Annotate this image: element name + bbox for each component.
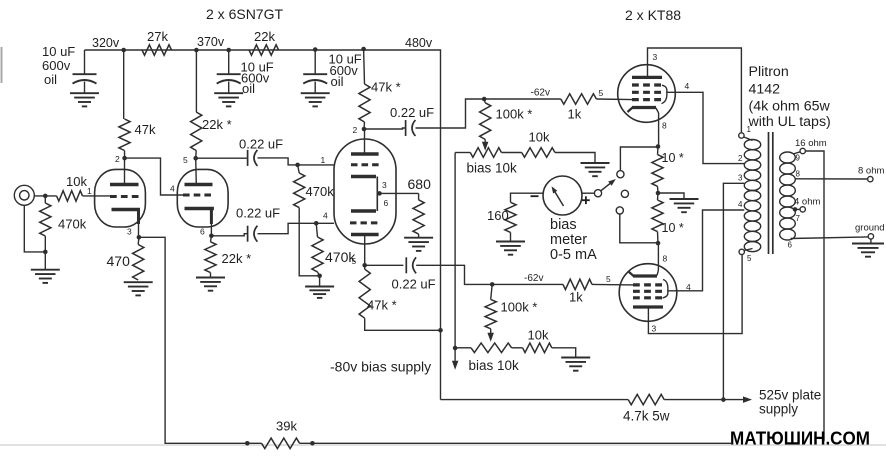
meter minus [531,195,539,197]
scan artifact left edge [1,47,3,83]
resistor 47k* lower [364,265,366,269]
resistor 10k input [57,191,83,201]
wire direct coupling V1a plate to V1b grid [125,158,183,195]
KT88 upper envelope [618,65,676,123]
wire pin2 to cap upper KT88 [364,128,406,129]
svg-text:meter: meter [550,232,587,248]
resistor 47k* plate load top [363,49,366,84]
ground symbol output [870,239,872,243]
svg-text:1: 1 [321,155,326,165]
resistor 10k lower [512,347,523,349]
svg-text:47k *: 47k * [367,298,397,313]
svg-text:10 *: 10 * [662,221,684,235]
svg-text:8: 8 [796,170,801,179]
KT88 lower grids [633,283,662,286]
capacitor 10uF 600v oil #3 [314,50,316,74]
wire feedback to 16 ohm tap [300,442,731,444]
svg-text:10k: 10k [529,130,550,145]
resistor 470k grid4 [316,223,317,237]
transformer core [768,132,770,254]
wire 1k to KT88 grid [596,98,632,101]
potentiometer bias 10k upper [455,152,470,154]
svg-text:27k: 27k [147,29,168,44]
node 39k right [310,441,315,446]
wire cap to driver grid 4 [258,223,335,233]
KT88 lower anode lead pin 3 [648,255,742,334]
svg-text:8 ohm: 8 ohm [858,166,884,177]
svg-text:3: 3 [738,174,743,183]
V1a grid [110,195,139,198]
meter plus [582,199,590,201]
svg-text:160: 160 [487,208,509,223]
svg-text:470k: 470k [306,184,335,199]
resistor 10* upper [657,147,660,155]
resistor 47k plate load V1a [123,50,125,119]
switch contact bottom [616,207,623,214]
capacitor 0.22uF to upper KT88 [405,120,407,136]
ground 470k pair [305,286,334,288]
svg-text:МАТЮШИН.COM: МАТЮШИН.COM [730,428,870,449]
node input ground [43,250,48,255]
svg-text:bias: bias [550,217,577,233]
KT88 lower cathode [633,274,657,277]
capacitor 10uF 600v oil #2 [228,50,230,74]
terminal ground [868,234,873,239]
svg-text:39k: 39k [276,419,297,434]
svg-text:5: 5 [606,274,611,284]
node driver grid1 [295,163,300,168]
capacitor 10uF 600v oil #1 [84,50,86,74]
svg-text:oil: oil [331,74,344,89]
node cathode 3-6 [377,191,382,196]
svg-text:2 x KT88: 2 x KT88 [625,7,681,23]
svg-text:600v: 600v [42,58,71,73]
resistor 4.7k 5w [628,394,664,404]
V1a cathode [112,208,141,211]
svg-text:supply: supply [759,402,798,417]
wire 470k down [299,208,319,276]
svg-text:oil: oil [242,81,255,96]
V2 bottom anode [351,233,379,236]
svg-text:2: 2 [115,154,120,164]
svg-text:100k *: 100k * [501,300,538,315]
wire to 525v arrow [664,399,745,401]
svg-text:ground: ground [855,223,885,234]
resistor 100k* lower [491,284,493,299]
svg-text:22k: 22k [254,29,275,44]
V2 top grid [351,163,379,166]
node 10 midpoint [656,191,661,196]
V2 cathode pair [351,175,376,178]
ground 22k cathode [210,273,212,278]
wire meter plus lead [582,192,594,194]
transformer primary coil [744,140,760,150]
svg-text:bias 10k: bias 10k [467,161,518,176]
svg-text:480v: 480v [405,36,433,50]
wire 1k to lower KT88 grid [592,283,633,286]
input jack [14,185,34,205]
svg-text:3: 3 [127,227,132,237]
resistor 1k lower [563,279,592,289]
wire 47k lower to B+ vertical [365,318,441,330]
svg-text:-80v bias supply: -80v bias supply [330,359,431,375]
svg-text:525v plate: 525v plate [759,388,821,403]
svg-text:6: 6 [200,227,205,237]
svg-text:bias 10k: bias 10k [469,358,520,373]
svg-text:Plitron: Plitron [749,64,789,80]
V1a anode [110,183,139,186]
node 525v [721,397,726,402]
svg-text:-62v: -62v [524,273,543,284]
resistor 27k [142,45,172,55]
resistor 22k* cathode V1b [210,236,213,242]
svg-text:680: 680 [408,176,432,192]
resistor 39k [262,438,300,448]
ground 160 [510,232,512,241]
switch pole [594,190,601,197]
svg-text:22k *: 22k * [222,251,252,266]
svg-text:with UL taps): with UL taps) [748,114,831,130]
wire V1b cathode to cap [211,234,247,236]
svg-text:4 ohm: 4 ohm [794,197,820,208]
svg-text:470k: 470k [58,217,87,232]
svg-text:4: 4 [323,211,328,221]
svg-text:10k: 10k [66,174,87,189]
svg-text:10 uF: 10 uF [42,44,75,59]
svg-text:0.22 uF: 0.22 uF [236,206,280,221]
resistor 10* lower [657,193,660,200]
svg-text:16 ohm: 16 ohm [795,138,827,149]
svg-text:47k *: 47k * [371,80,401,95]
svg-text:320v: 320v [92,36,120,50]
transformer primary terminal 5 [739,249,744,254]
svg-text:-62v: -62v [531,88,550,99]
switch contact top [617,171,624,178]
wire V1b plate to cap [196,157,248,159]
wire cap to driver grid 1 [258,158,335,165]
svg-text:5: 5 [599,88,604,98]
node -62v upper [482,97,487,102]
svg-text:4: 4 [738,200,743,209]
svg-text:2: 2 [353,125,358,135]
svg-text:2 x 6SN7GT: 2 x 6SN7GT [206,6,283,22]
wire cap to -62v node upper [416,99,561,128]
KT88 upper anode [632,76,662,79]
wire bottom contact to lower cathode [620,214,658,243]
svg-text:9: 9 [796,154,801,163]
ground 470 [124,281,153,283]
svg-text:6: 6 [788,241,793,250]
wire pin5 V2 to cap lower KT88 [365,264,404,266]
KT88 lower grid bracket [663,280,668,299]
KT88 upper grid bracket [662,85,667,103]
svg-text:1k: 1k [569,290,583,305]
KT88 lower anode [633,305,663,308]
svg-text:5: 5 [352,256,357,266]
svg-text:0-5 mA: 0-5 mA [550,247,597,263]
node pin5 V1b [193,156,198,161]
capacitor 0.22uF upper [247,150,249,166]
V1b cathode [185,207,214,210]
wire 16 ohm feedback [805,151,824,441]
wire meter minus lead [511,193,544,202]
resistor 680 cathode [418,193,420,199]
node 480v [313,47,318,52]
svg-text:22k *: 22k * [202,117,232,132]
ground 680 [418,234,420,237]
resistor 10k upper [501,152,521,154]
svg-text:6: 6 [384,198,389,208]
resistor 470k input [44,196,46,203]
resistor 160 [505,202,516,232]
svg-text:10k: 10k [528,328,549,343]
V2 bottom grid [350,221,377,224]
wire jack sleeve [24,205,45,252]
svg-text:2: 2 [738,154,743,163]
pot wiper arrow upper [484,139,486,145]
svg-text:47k: 47k [135,122,156,137]
secondary tap 8 [795,178,867,180]
KT88 upper grids [632,83,661,86]
svg-text:4: 4 [686,282,691,292]
wire 525v rail [441,399,629,401]
node input [43,194,48,199]
secondary tap 6 ground [791,237,869,239]
arrow 525v supply [743,396,752,403]
resistor 470k grid1 [298,165,300,173]
svg-text:10 *: 10 * [662,151,684,165]
node on B+ vertical [438,328,443,333]
triode V1a envelope [95,169,146,227]
potentiometer bias 10k lower [455,347,471,349]
resistor 1k upper [561,94,597,104]
node lower cathode [656,241,661,246]
svg-text:(4k ohm 65w: (4k ohm 65w [749,99,831,115]
driver V2 envelope [334,139,396,244]
ground input [31,269,60,271]
triode V1b envelope [177,169,228,227]
svg-text:4.7k 5w: 4.7k 5w [623,409,670,424]
resistor 22k [249,45,279,55]
switch arm [601,181,613,191]
node 470k junction [317,274,322,279]
V2 top anode [351,152,379,155]
wire B+ rail [85,50,441,400]
svg-text:7: 7 [796,214,801,223]
ground 10k lower [552,348,576,358]
secondary tap 7 4ohm [793,207,798,212]
svg-text:1: 1 [87,186,92,196]
capacitor 0.22uF lower [247,226,249,242]
terminal 8 ohm [868,176,873,181]
svg-text:8: 8 [662,121,667,131]
transformer secondary coil [780,152,796,163]
meter body [543,176,582,215]
secondary terminal 9 [793,152,800,154]
wire feedback from V1a cathode [139,237,247,443]
svg-text:0.22 uF: 0.22 uF [390,105,434,120]
node pin3 V1a [137,235,142,240]
wire center tap to 525v [723,183,744,399]
KT88 upper screen lead pin 4 [667,92,745,163]
svg-text:1k: 1k [568,107,582,122]
scan artifact bottom line [0,444,886,446]
svg-text:0.22 uF: 0.22 uF [392,277,436,292]
switch contact middle [621,190,628,197]
node 39k left [245,441,250,446]
wire cap to -62v node lower [416,265,563,284]
ground 10 midpoint [658,193,684,199]
capacitor 0.22uF to lower KT88 [405,257,407,273]
KT88 lower envelope [619,264,677,322]
svg-text:3: 3 [382,180,387,190]
svg-text:3: 3 [652,324,657,334]
node driver grid4 [314,221,319,226]
node pin2 V1a [122,156,127,161]
node 320v [121,48,126,53]
V1b grid [183,194,211,197]
svg-text:470: 470 [107,253,131,269]
node 370v [194,48,199,53]
svg-text:370v: 370v [197,35,225,49]
svg-text:4142: 4142 [749,82,781,98]
node bias line lower pot [453,346,458,351]
node pin6 V1b [209,234,214,239]
KT88 upper anode lead [648,48,742,133]
node pin5 V2 [362,263,367,268]
svg-text:4: 4 [685,81,690,91]
pot wiper arrow lower [490,329,492,337]
svg-text:8: 8 [663,254,668,264]
KT88 lower screen lead pin 4 [668,210,745,291]
resistor 100k* upper [484,99,485,103]
svg-text:5: 5 [747,254,752,263]
svg-text:100k *: 100k * [496,107,533,122]
transformer primary terminal 1 [739,133,744,138]
meter needle [554,190,564,207]
node -62v lower [490,282,495,287]
svg-text:oil: oil [44,72,57,87]
svg-text:3: 3 [653,52,658,62]
svg-text:4: 4 [170,184,175,194]
V1b anode [185,183,213,186]
KT88 upper cathode [632,106,656,109]
svg-text:5: 5 [183,155,188,165]
node pin2 V2 [362,127,367,132]
resistor 470 cathode V1a [137,237,140,244]
node upper cathode [656,144,661,149]
resistor 22k* plate load V1b [195,50,197,112]
wire top contact to upper cathode [620,147,658,171]
svg-text:0.22 uF: 0.22 uF [239,137,283,152]
wire -80v bias line [454,153,456,365]
ground 10k upper [555,153,595,163]
